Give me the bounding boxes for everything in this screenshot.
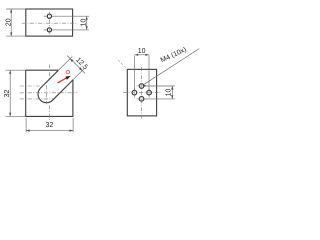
svg-text:32: 32 — [45, 122, 53, 129]
svg-text:10: 10 — [138, 48, 146, 55]
svg-text:20: 20 — [6, 18, 13, 26]
svg-text:10: 10 — [80, 19, 87, 27]
svg-text:10: 10 — [166, 89, 173, 97]
svg-text:32: 32 — [4, 90, 11, 98]
